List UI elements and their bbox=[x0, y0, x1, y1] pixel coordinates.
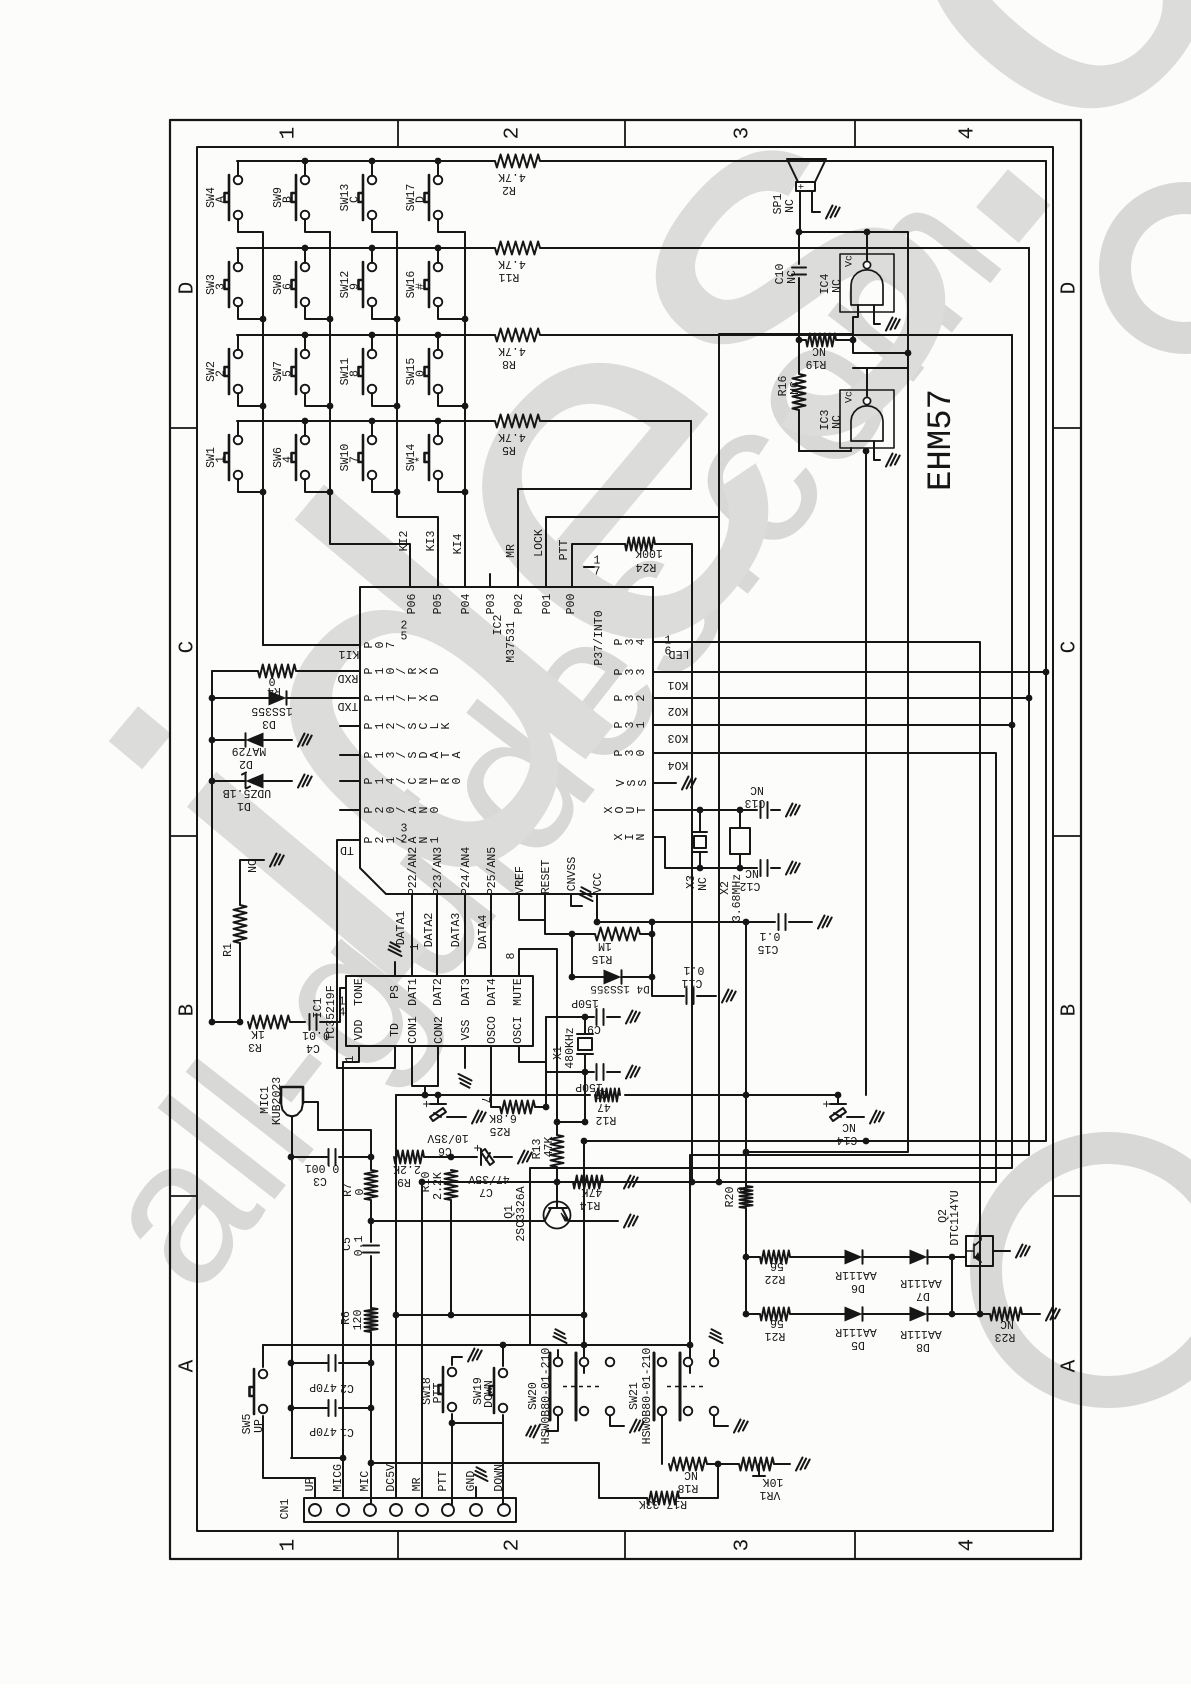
wire XIN net bbox=[653, 837, 757, 868]
svg-text:P03: P03 bbox=[485, 594, 498, 615]
svg-text:D6: D6 bbox=[851, 1281, 865, 1294]
svg-text:VR1: VR1 bbox=[760, 1488, 781, 1501]
capacitor C3 bbox=[291, 1149, 371, 1165]
svg-text:0.1: 0.1 bbox=[760, 929, 781, 942]
wire KO2 net bbox=[653, 248, 1029, 1373]
svg-text:+: + bbox=[471, 1144, 486, 1152]
svg-text:C7: C7 bbox=[479, 1185, 493, 1198]
svg-text:UP: UP bbox=[304, 1477, 317, 1491]
switch SW18 bbox=[439, 1367, 444, 1412]
svg-text:2: 2 bbox=[501, 127, 524, 140]
svg-text:480KHz: 480KHz bbox=[564, 1027, 577, 1068]
svg-text:47K: 47K bbox=[543, 1137, 556, 1158]
svg-text:470P: 470P bbox=[309, 1424, 337, 1437]
switch SW21 bbox=[658, 1358, 667, 1367]
svg-text:SW21: SW21 bbox=[628, 1382, 641, 1410]
diode D4 bbox=[572, 922, 652, 984]
wire KO4 net bbox=[422, 753, 996, 1182]
speaker SP1 bbox=[787, 159, 826, 191]
svg-text:PTT: PTT bbox=[432, 1383, 445, 1404]
capacitor C4 bbox=[310, 988, 347, 1030]
border frame outer bbox=[170, 120, 1081, 1559]
svg-text:4: 4 bbox=[956, 127, 979, 140]
svg-text:DTC114YU: DTC114YU bbox=[949, 1190, 962, 1245]
svg-text:NC: NC bbox=[745, 866, 759, 879]
svg-text:CON2: CON2 bbox=[433, 1016, 446, 1044]
svg-text:DATA2: DATA2 bbox=[423, 913, 436, 948]
svg-text:P33: P33 bbox=[613, 668, 648, 675]
switch SW6 bbox=[292, 435, 297, 480]
capacitor C11 bbox=[652, 977, 736, 1004]
svg-text:MA729: MA729 bbox=[232, 744, 267, 757]
resistor R24 bbox=[625, 538, 655, 551]
resistor R2 bbox=[237, 155, 1046, 168]
diode row D6 D7 bbox=[746, 1250, 966, 1264]
resistor R15 bbox=[572, 928, 652, 941]
svg-text:TONE: TONE bbox=[353, 978, 366, 1006]
potentiometer VR1 bbox=[718, 1458, 810, 1477]
svg-text:UP: UP bbox=[253, 1419, 266, 1433]
svg-text:R18: R18 bbox=[678, 1481, 699, 1494]
svg-text:P32: P32 bbox=[613, 694, 648, 701]
svg-text:NC: NC bbox=[842, 1120, 856, 1133]
switch SW13 bbox=[359, 175, 364, 220]
wire VCC line bbox=[597, 894, 746, 922]
svg-text:Vc: Vc bbox=[845, 391, 856, 403]
svg-text:NC: NC bbox=[812, 344, 826, 357]
svg-text:7: 7 bbox=[594, 566, 601, 579]
resistor R11 bbox=[237, 242, 1029, 255]
svg-text:DATA3: DATA3 bbox=[450, 913, 463, 948]
svg-text:P11/TXD: P11/TXD bbox=[363, 694, 442, 701]
svg-text:1: 1 bbox=[277, 1539, 300, 1552]
capacitor C8 bbox=[597, 1064, 640, 1080]
svg-text:8: 8 bbox=[505, 952, 518, 959]
logic gate IC3 bbox=[840, 390, 894, 448]
svg-text:C2: C2 bbox=[340, 1381, 354, 1394]
svg-text:CON1: CON1 bbox=[407, 1016, 420, 1044]
svg-text:MR: MR bbox=[505, 544, 518, 558]
capacitor C2 bbox=[291, 1355, 371, 1371]
svg-text:D4 1SS355: D4 1SS355 bbox=[590, 982, 649, 994]
svg-text:D3: D3 bbox=[262, 717, 276, 730]
wire keypad col1 bbox=[262, 233, 264, 645]
svg-text:CNVSS: CNVSS bbox=[566, 857, 579, 892]
svg-text:A: A bbox=[176, 1359, 199, 1372]
svg-text:47: 47 bbox=[597, 1100, 611, 1113]
resistor R7 bbox=[365, 1157, 378, 1221]
wire mic bottom bbox=[291, 1116, 343, 1458]
svg-text:IC2: IC2 bbox=[492, 615, 505, 636]
wire TD net bbox=[337, 840, 395, 1068]
svg-text:KO2: KO2 bbox=[668, 704, 689, 717]
svg-text:R25: R25 bbox=[490, 1124, 511, 1137]
svg-text:AA111R: AA111R bbox=[835, 1325, 877, 1338]
wire keypad col3 bbox=[397, 232, 438, 587]
svg-text:C4: C4 bbox=[306, 1041, 320, 1054]
svg-text:1K: 1K bbox=[251, 1027, 265, 1040]
svg-text:2: 2 bbox=[401, 834, 408, 847]
svg-text:0: 0 bbox=[415, 370, 428, 377]
resistor R25 bbox=[491, 1046, 546, 1114]
svg-text:C12: C12 bbox=[740, 879, 761, 892]
switch SW10 bbox=[359, 435, 364, 480]
capacitor C9 bbox=[597, 1009, 640, 1025]
resistor R3 bbox=[248, 1016, 305, 1029]
svg-text:AA111R: AA111R bbox=[900, 1327, 942, 1340]
border zone ticks bbox=[170, 120, 1081, 1559]
svg-text:DAT1: DAT1 bbox=[407, 978, 420, 1006]
svg-text:D7: D7 bbox=[916, 1289, 930, 1302]
svg-text:PTT: PTT bbox=[558, 540, 571, 561]
IC2 P20 stub bbox=[340, 809, 360, 811]
svg-text:IC1: IC1 bbox=[312, 998, 325, 1019]
svg-text:R1: R1 bbox=[222, 943, 235, 957]
wire CON1 CON2 bbox=[412, 1046, 438, 1095]
resistor R6 bbox=[365, 1308, 378, 1509]
capacitor C12 bbox=[761, 860, 800, 876]
svg-text:KUB2023: KUB2023 bbox=[271, 1077, 284, 1125]
diode row D5 D8 bbox=[746, 1307, 1060, 1321]
wire KO3 net bbox=[530, 335, 1012, 1345]
resistor R9 bbox=[394, 1151, 451, 1164]
svg-text:1: 1 bbox=[215, 456, 228, 463]
svg-text:DC5V: DC5V bbox=[385, 1464, 398, 1492]
svg-text:SW20: SW20 bbox=[527, 1382, 540, 1410]
capacitor C13 bbox=[761, 802, 800, 818]
svg-text:R19: R19 bbox=[806, 357, 827, 370]
IC2 P12 stub bbox=[340, 725, 360, 727]
connector CN1 bbox=[304, 1498, 516, 1522]
svg-text:R2: R2 bbox=[502, 183, 516, 196]
svg-text:RXD: RXD bbox=[338, 671, 359, 684]
transistor Q2 bbox=[966, 1236, 993, 1266]
wire Q1 base line bbox=[371, 1220, 544, 1222]
svg-text:C1: C1 bbox=[340, 1425, 354, 1438]
svg-text:AA111R: AA111R bbox=[835, 1268, 877, 1281]
svg-text:C: C bbox=[176, 641, 199, 654]
svg-text:HSW0B80-01-210: HSW0B80-01-210 bbox=[540, 1348, 553, 1445]
svg-text:NC: NC bbox=[784, 199, 797, 213]
svg-text:#: # bbox=[415, 283, 428, 290]
svg-text:A: A bbox=[1058, 1359, 1081, 1372]
resistor R13 bbox=[551, 1135, 564, 1182]
diode D2 bbox=[212, 733, 312, 747]
svg-text:470P: 470P bbox=[309, 1380, 337, 1393]
svg-text:P00: P00 bbox=[565, 594, 578, 615]
svg-text:P23/AN3: P23/AN3 bbox=[432, 847, 445, 895]
svg-text:P10/RXD: P10/RXD bbox=[363, 667, 442, 674]
svg-text:+: + bbox=[798, 183, 809, 189]
switch SW16 bbox=[425, 262, 430, 307]
capacitor C5 bbox=[363, 1221, 379, 1308]
svg-text:OSCO: OSCO bbox=[486, 1016, 499, 1044]
capacitor C10 bbox=[792, 232, 806, 340]
svg-text:TD: TD bbox=[340, 843, 354, 856]
svg-text:OSCI: OSCI bbox=[512, 1016, 525, 1044]
svg-text:TXD: TXD bbox=[338, 699, 359, 712]
svg-text:47/35V: 47/35V bbox=[468, 1172, 510, 1185]
wire X1 top node bbox=[546, 1016, 594, 1018]
svg-text:P01: P01 bbox=[541, 594, 554, 615]
IC2 P14 stub bbox=[340, 780, 360, 782]
svg-text:8: 8 bbox=[349, 370, 362, 377]
svg-text:P25/AN5: P25/AN5 bbox=[486, 847, 499, 895]
svg-text:R8: R8 bbox=[502, 357, 516, 370]
svg-text:DAT4: DAT4 bbox=[486, 978, 499, 1006]
svg-text:UDZ5.1B: UDZ5.1B bbox=[223, 786, 271, 799]
svg-text:9: 9 bbox=[349, 283, 362, 290]
svg-text:4.7K: 4.7K bbox=[498, 344, 526, 357]
switch SW12 bbox=[359, 262, 364, 307]
svg-text:2: 2 bbox=[501, 1539, 524, 1552]
svg-text:*: * bbox=[415, 456, 428, 463]
svg-text:C: C bbox=[1058, 641, 1081, 654]
svg-text:7: 7 bbox=[349, 456, 362, 463]
svg-text:3: 3 bbox=[731, 127, 754, 140]
svg-text:KO4: KO4 bbox=[668, 758, 689, 771]
wire Q1 emitter gnd bbox=[569, 1215, 638, 1228]
svg-text:PS: PS bbox=[389, 985, 402, 999]
svg-text:NC: NC bbox=[750, 783, 764, 796]
resistor R18 bbox=[669, 1458, 718, 1471]
svg-text:100K: 100K bbox=[635, 546, 663, 559]
svg-text:10K: 10K bbox=[763, 1475, 784, 1488]
svg-text:TC35219F: TC35219F bbox=[325, 985, 338, 1040]
capacitor C1 bbox=[291, 1400, 371, 1416]
switch SW4 bbox=[225, 175, 230, 220]
switch SW1 bbox=[225, 435, 230, 480]
svg-text:6.8K: 6.8K bbox=[489, 1111, 517, 1124]
border frame inner bbox=[197, 147, 1053, 1531]
wire left vertical bbox=[212, 671, 240, 1022]
IC2 P13 stub bbox=[340, 754, 360, 756]
svg-text:XIN: XIN bbox=[613, 833, 648, 840]
switch SW19 bbox=[490, 1368, 495, 1413]
svg-text:B: B bbox=[176, 1004, 199, 1017]
wire MUTE net bbox=[519, 949, 585, 1135]
wire MR net bbox=[518, 421, 691, 587]
svg-text:XOUT: XOUT bbox=[603, 806, 649, 813]
svg-text:A: A bbox=[215, 196, 228, 203]
resistor R5 bbox=[237, 415, 691, 428]
crystal X3 bbox=[693, 810, 707, 868]
wire MICG bbox=[342, 1458, 344, 1498]
svg-text:0: 0 bbox=[736, 1186, 749, 1193]
wire X1 bottom node bbox=[546, 1072, 594, 1122]
crystal X1 bbox=[577, 1017, 593, 1072]
svg-text:C6: C6 bbox=[438, 1144, 452, 1157]
wire CNVSS gnd bbox=[571, 887, 593, 906]
svg-text:C14: C14 bbox=[837, 1133, 858, 1146]
switch SW3 bbox=[225, 262, 230, 307]
svg-text:NC: NC bbox=[697, 877, 710, 891]
svg-text:TD: TD bbox=[389, 1023, 402, 1037]
resistor R8 bbox=[237, 329, 1012, 342]
svg-text:P14/CNTR0: P14/CNTR0 bbox=[363, 777, 464, 784]
svg-text:R11: R11 bbox=[499, 270, 520, 283]
svg-text:R23: R23 bbox=[995, 1330, 1016, 1343]
switch SW15 bbox=[425, 349, 430, 394]
svg-text:P12/SCLK: P12/SCLK bbox=[363, 722, 453, 729]
svg-text:0: 0 bbox=[354, 1188, 367, 1195]
svg-text:0.001: 0.001 bbox=[305, 1161, 340, 1174]
svg-text:C3: C3 bbox=[313, 1174, 327, 1187]
svg-text:VSS: VSS bbox=[460, 1020, 473, 1041]
svg-text:P30: P30 bbox=[613, 749, 648, 756]
wire gate top line bbox=[799, 232, 908, 353]
svg-text:4: 4 bbox=[339, 1007, 346, 1020]
svg-text:PTT: PTT bbox=[437, 1471, 450, 1492]
svg-text:P34: P34 bbox=[613, 638, 648, 645]
svg-text:B: B bbox=[282, 196, 295, 203]
switch SW11 bbox=[359, 349, 364, 394]
svg-text:RESET: RESET bbox=[540, 860, 553, 895]
svg-text:2.2K: 2.2K bbox=[432, 1172, 445, 1200]
svg-text:VDD: VDD bbox=[353, 1020, 366, 1041]
IC2 P03 stub bbox=[489, 574, 491, 587]
svg-text:Vc: Vc bbox=[845, 255, 856, 267]
svg-text:VREF: VREF bbox=[514, 866, 527, 894]
svg-text:2.2K: 2.2K bbox=[393, 1162, 421, 1175]
svg-text:C11: C11 bbox=[682, 976, 703, 989]
wire up-down rail bbox=[263, 1344, 690, 1346]
svg-text:M37531: M37531 bbox=[505, 621, 518, 663]
svg-text:P20/AN0: P20/AN0 bbox=[363, 806, 442, 813]
switch SW8 bbox=[292, 262, 297, 307]
svg-text:4.7K: 4.7K bbox=[498, 170, 526, 183]
svg-text:1: 1 bbox=[409, 943, 422, 950]
svg-text:5: 5 bbox=[282, 370, 295, 377]
svg-text:LED: LED bbox=[669, 647, 690, 660]
svg-text:NC: NC bbox=[1000, 1317, 1014, 1330]
wire 5V feed bbox=[396, 1095, 584, 1498]
svg-text:+: + bbox=[420, 1100, 435, 1108]
svg-text:120: 120 bbox=[352, 1310, 365, 1331]
svg-text:0.1: 0.1 bbox=[684, 963, 705, 976]
svg-text:1M: 1M bbox=[598, 939, 612, 952]
switch SW5 bbox=[250, 1369, 255, 1414]
svg-text:DAT2: DAT2 bbox=[432, 978, 445, 1006]
resistor R17 bbox=[371, 1463, 718, 1505]
svg-text:56: 56 bbox=[770, 1316, 784, 1329]
transistor Q1 bbox=[544, 1202, 571, 1229]
wire KO1 net bbox=[584, 161, 1046, 1373]
IC1 VSS gnd bbox=[459, 1046, 472, 1088]
svg-text:DATA4: DATA4 bbox=[477, 915, 490, 950]
wire keypad col2 bbox=[330, 232, 410, 587]
svg-text:2SC3326A: 2SC3326A bbox=[515, 1186, 528, 1241]
svg-text:P02: P02 bbox=[513, 594, 526, 615]
svg-text:KI2: KI2 bbox=[398, 531, 411, 552]
svg-text:4.7K: 4.7K bbox=[498, 257, 526, 270]
svg-text:R9: R9 bbox=[397, 1175, 411, 1188]
svg-text:P05: P05 bbox=[432, 594, 445, 615]
svg-text:NC: NC bbox=[831, 279, 844, 293]
svg-text:R5: R5 bbox=[502, 443, 516, 456]
svg-text:P24/AN4: P24/AN4 bbox=[460, 847, 473, 895]
switch SW2 bbox=[225, 349, 230, 394]
svg-text:D: D bbox=[415, 196, 428, 203]
svg-text:B: B bbox=[1058, 1004, 1081, 1017]
svg-text:P06: P06 bbox=[406, 594, 419, 615]
svg-text:R3: R3 bbox=[248, 1040, 262, 1053]
wire DATA1-4 bbox=[412, 894, 491, 976]
svg-text:VSS: VSS bbox=[615, 779, 650, 786]
svg-text:5: 5 bbox=[401, 631, 408, 644]
svg-text:P31: P31 bbox=[613, 721, 648, 728]
wire Q2 base link bbox=[951, 1257, 953, 1314]
svg-text:KO1: KO1 bbox=[668, 678, 689, 691]
svg-text:P13/SDATA: P13/SDATA bbox=[363, 751, 464, 758]
wire XOUT net bbox=[653, 809, 757, 811]
wire MR pin bbox=[421, 1182, 423, 1498]
svg-text:C15: C15 bbox=[758, 942, 779, 955]
wire IC3 wiring bbox=[799, 368, 908, 1095]
svg-text:56: 56 bbox=[770, 1259, 784, 1272]
wire bus jog bbox=[747, 353, 908, 1152]
svg-text:3: 3 bbox=[215, 283, 228, 290]
wire IC4 inputs bbox=[853, 305, 900, 340]
wire power vertical bbox=[745, 922, 747, 1186]
svg-text:KI4: KI4 bbox=[452, 534, 465, 555]
wire DC5V rail bbox=[396, 1094, 746, 1096]
svg-text:D2: D2 bbox=[239, 757, 253, 770]
svg-text:CN1: CN1 bbox=[279, 1499, 292, 1520]
svg-text:R14: R14 bbox=[580, 1198, 601, 1211]
resistor R19 bbox=[799, 334, 853, 347]
switch SW7 bbox=[292, 349, 297, 394]
svg-text:D8: D8 bbox=[916, 1340, 930, 1353]
capacitor C14 bbox=[830, 1095, 884, 1124]
resistor R10 bbox=[445, 1170, 458, 1315]
svg-text:KI1: KI1 bbox=[339, 647, 360, 660]
svg-text:C13: C13 bbox=[745, 796, 766, 809]
svg-text:D: D bbox=[1058, 282, 1081, 295]
wire LOCK net bbox=[546, 334, 853, 1182]
svg-text:DOWN: DOWN bbox=[483, 1380, 496, 1408]
switch SW14 bbox=[425, 435, 430, 480]
capacitor C6 bbox=[430, 1095, 486, 1124]
svg-text:EHM57: EHM57 bbox=[923, 389, 961, 491]
svg-text:150P: 150P bbox=[571, 996, 599, 1009]
svg-text:KO3: KO3 bbox=[668, 731, 689, 744]
svg-text:KI3: KI3 bbox=[425, 531, 438, 552]
svg-text:1: 1 bbox=[277, 127, 300, 140]
svg-text:NC: NC bbox=[684, 1468, 698, 1481]
svg-text:P37/INT0: P37/INT0 bbox=[593, 610, 606, 665]
watermark all-guides.com bbox=[986, 198, 1191, 1392]
diode D1 zener bbox=[212, 773, 312, 789]
svg-text:C: C bbox=[349, 196, 362, 203]
svg-text:DAT3: DAT3 bbox=[460, 978, 473, 1006]
svg-text:P04: P04 bbox=[460, 594, 473, 615]
microphone MIC1 bbox=[281, 1087, 303, 1103]
svg-text:DOWN: DOWN bbox=[493, 1464, 506, 1492]
svg-text:+: + bbox=[820, 1100, 835, 1108]
wire LED net bbox=[653, 642, 980, 1314]
capacitor C15 bbox=[746, 914, 832, 930]
svg-text:4.7K: 4.7K bbox=[498, 430, 526, 443]
svg-text:1SS355: 1SS355 bbox=[251, 704, 293, 717]
svg-text:10/35V: 10/35V bbox=[427, 1131, 469, 1144]
logic gate IC4 bbox=[840, 254, 894, 312]
svg-text:DATA1: DATA1 bbox=[395, 911, 408, 946]
wire keypad col4 bbox=[464, 232, 466, 587]
svg-text:R17 33K: R17 33K bbox=[639, 1497, 687, 1510]
svg-text:R22: R22 bbox=[765, 1272, 786, 1285]
svg-text:NC: NC bbox=[831, 415, 844, 429]
